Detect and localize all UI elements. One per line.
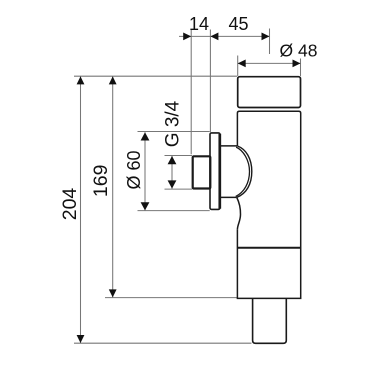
svg-text:Ø 60: Ø 60 [124, 150, 144, 189]
svg-text:14: 14 [189, 14, 209, 34]
svg-text:G 3/4: G 3/4 [162, 100, 183, 147]
svg-text:204: 204 [59, 188, 81, 221]
svg-text:169: 169 [90, 165, 112, 198]
svg-text:45: 45 [228, 14, 248, 34]
svg-text:Ø 48: Ø 48 [280, 41, 318, 61]
